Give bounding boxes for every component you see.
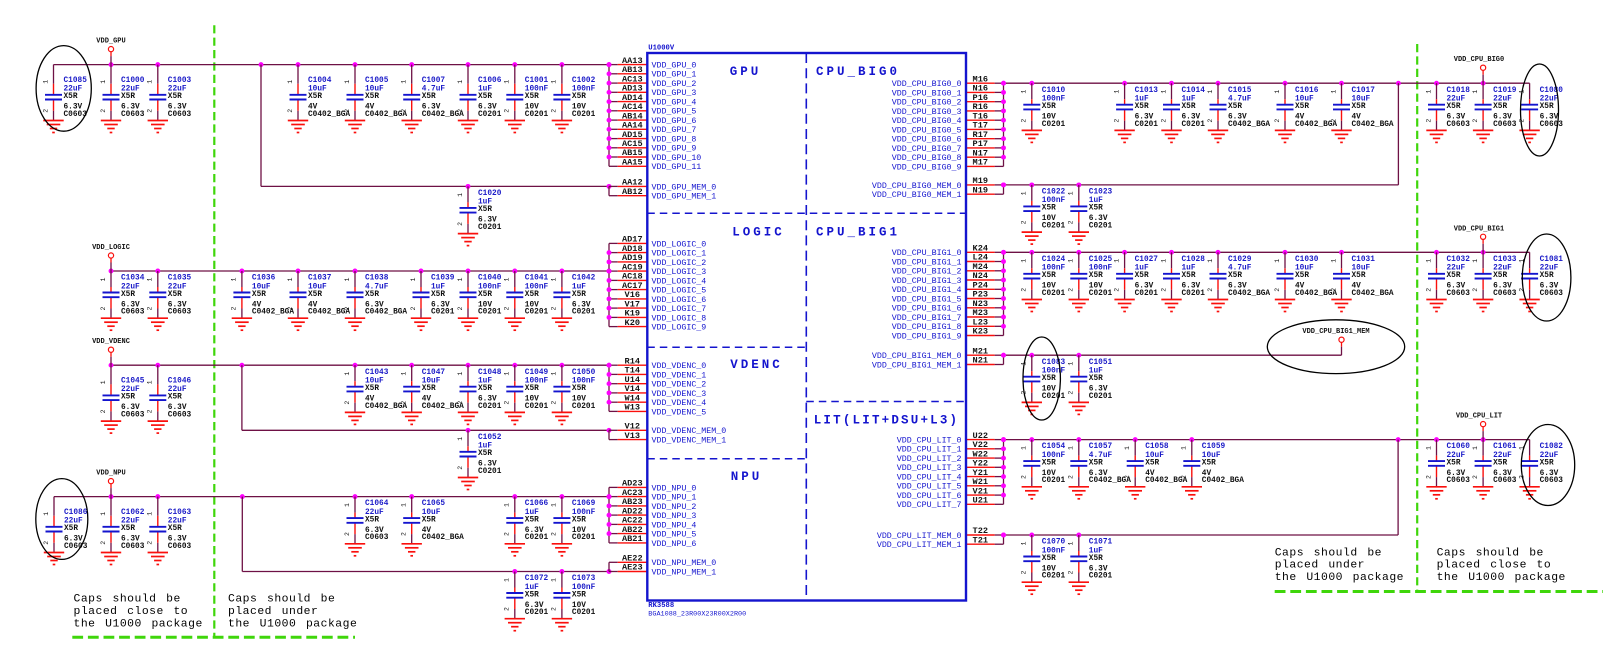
svg-text:2: 2: [344, 532, 351, 536]
svg-text:1: 1: [1274, 90, 1281, 94]
svg-text:1: 1: [1068, 191, 1075, 195]
svg-text:X5R: X5R: [1089, 555, 1103, 563]
svg-text:C1063: C1063: [168, 509, 192, 517]
svg-text:1: 1: [1160, 90, 1167, 94]
svg-text:C1064: C1064: [365, 500, 389, 508]
svg-text:1: 1: [147, 277, 154, 281]
svg-text:2: 2: [1207, 288, 1214, 292]
svg-text:1: 1: [401, 503, 408, 507]
svg-text:2: 2: [100, 306, 107, 310]
svg-text:1: 1: [1160, 259, 1167, 263]
svg-text:1: 1: [1068, 362, 1075, 366]
svg-text:C0201: C0201: [1042, 393, 1066, 401]
svg-text:X5R: X5R: [572, 516, 586, 524]
svg-text:VDD_GPU_7: VDD_GPU_7: [652, 126, 697, 135]
svg-text:C1025: C1025: [1089, 256, 1113, 264]
svg-text:C1013: C1013: [1135, 87, 1159, 95]
svg-text:X5R: X5R: [365, 93, 379, 101]
svg-text:VDD_VDENC_MEM_1: VDD_VDENC_MEM_1: [652, 437, 727, 446]
svg-text:C1006: C1006: [478, 77, 502, 85]
svg-text:C1071: C1071: [1089, 539, 1113, 547]
svg-text:2: 2: [287, 109, 294, 113]
svg-text:C0603: C0603: [168, 309, 192, 317]
svg-text:1: 1: [1330, 259, 1337, 263]
svg-text:1: 1: [1274, 259, 1281, 263]
svg-text:1: 1: [457, 372, 464, 376]
svg-text:C1001: C1001: [525, 77, 549, 85]
svg-text:GPU: GPU: [730, 65, 762, 79]
svg-text:C1031: C1031: [1352, 256, 1376, 264]
svg-text:1: 1: [287, 80, 294, 84]
svg-text:X5R: X5R: [1540, 103, 1554, 111]
svg-text:2: 2: [1068, 475, 1075, 479]
svg-text:C1007: C1007: [422, 77, 446, 85]
svg-text:C1057: C1057: [1089, 443, 1113, 451]
svg-text:C1073: C1073: [572, 575, 596, 583]
svg-text:VDD_GPU_4: VDD_GPU_4: [652, 99, 697, 108]
svg-text:C1038: C1038: [365, 275, 389, 283]
svg-text:VDD_NPU: VDD_NPU: [96, 470, 125, 478]
svg-text:VDD_CPU_BIG1_3: VDD_CPU_BIG1_3: [892, 277, 962, 286]
svg-text:1: 1: [100, 512, 107, 516]
svg-text:C0402_BGA: C0402_BGA: [1352, 121, 1394, 129]
svg-text:C0201: C0201: [1135, 121, 1159, 129]
svg-text:X5R: X5R: [1295, 272, 1309, 280]
svg-text:C1085: C1085: [64, 77, 88, 85]
svg-text:the U1000 package: the U1000 package: [1275, 572, 1404, 584]
svg-text:C0603: C0603: [64, 543, 88, 551]
svg-text:X5R: X5R: [1089, 205, 1103, 213]
svg-text:CPU_BIG0: CPU_BIG0: [816, 65, 900, 79]
svg-text:2: 2: [457, 466, 464, 470]
svg-text:1: 1: [287, 277, 294, 281]
svg-text:C0603: C0603: [1540, 290, 1564, 298]
svg-text:C1049: C1049: [525, 369, 549, 377]
svg-text:1: 1: [100, 277, 107, 281]
svg-text:LOGIC: LOGIC: [732, 225, 785, 239]
svg-text:CPU_BIG1: CPU_BIG1: [816, 225, 900, 239]
svg-text:VDD_CPU_BIG0_2: VDD_CPU_BIG0_2: [892, 99, 962, 108]
svg-text:C1059: C1059: [1202, 443, 1226, 451]
svg-text:2: 2: [1068, 391, 1075, 395]
svg-text:C1046: C1046: [168, 378, 192, 386]
svg-text:W13: W13: [625, 403, 640, 413]
svg-text:1: 1: [551, 277, 558, 281]
svg-text:C0603: C0603: [1493, 477, 1517, 485]
svg-text:C1018: C1018: [1447, 87, 1471, 95]
svg-text:1: 1: [457, 80, 464, 84]
svg-text:1: 1: [1207, 90, 1214, 94]
svg-text:VDD_CPU_BIG0_1: VDD_CPU_BIG0_1: [892, 89, 962, 98]
svg-text:VDD_CPU_LIT_3: VDD_CPU_LIT_3: [897, 464, 962, 473]
svg-text:VDD_CPU_LIT_5: VDD_CPU_LIT_5: [897, 483, 962, 492]
svg-text:X5R: X5R: [1182, 103, 1196, 111]
svg-text:VDD_NPU_MEM_1: VDD_NPU_MEM_1: [652, 568, 717, 577]
svg-text:VDD_CPU_BIG1_6: VDD_CPU_BIG1_6: [892, 305, 962, 314]
svg-text:1: 1: [401, 80, 408, 84]
svg-text:C1010: C1010: [1042, 87, 1066, 95]
svg-text:2: 2: [457, 222, 464, 226]
svg-text:1: 1: [147, 380, 154, 384]
svg-text:M17: M17: [973, 158, 988, 168]
svg-text:2: 2: [1181, 475, 1188, 479]
svg-text:K23: K23: [973, 327, 988, 337]
svg-text:2: 2: [1472, 288, 1479, 292]
svg-text:C0603: C0603: [1540, 121, 1564, 129]
svg-text:X5R: X5R: [1447, 272, 1461, 280]
svg-text:C1005: C1005: [365, 77, 389, 85]
svg-text:2: 2: [1021, 119, 1028, 123]
svg-text:C1072: C1072: [525, 575, 549, 583]
svg-text:VDD_CPU_BIG0_8: VDD_CPU_BIG0_8: [892, 154, 962, 163]
svg-text:VDD_LOGIC_0: VDD_LOGIC_0: [652, 240, 707, 249]
svg-text:C1082: C1082: [1540, 443, 1564, 451]
svg-text:1: 1: [147, 80, 154, 84]
svg-text:BGA1088_23R00X23R00X2R00: BGA1088_23R00X23R00X2R00: [648, 610, 746, 618]
svg-text:the U1000 package: the U1000 package: [228, 618, 357, 630]
svg-text:X5R: X5R: [1352, 272, 1366, 280]
svg-text:VDD_CPU_BIG0_6: VDD_CPU_BIG0_6: [892, 136, 962, 145]
svg-text:1: 1: [504, 80, 511, 84]
svg-text:VDD_CPU_LIT_0: VDD_CPU_LIT_0: [897, 437, 962, 446]
svg-text:2: 2: [504, 109, 511, 113]
svg-text:2: 2: [1518, 119, 1525, 123]
svg-text:2: 2: [344, 109, 351, 113]
svg-text:2: 2: [43, 541, 50, 545]
svg-text:C1054: C1054: [1042, 443, 1066, 451]
svg-text:1: 1: [1472, 90, 1479, 94]
svg-text:X5R: X5R: [1089, 272, 1103, 280]
svg-text:VDD_LOGIC_1: VDD_LOGIC_1: [652, 250, 707, 259]
svg-text:1: 1: [504, 503, 511, 507]
svg-text:C1048: C1048: [478, 369, 502, 377]
svg-text:X5R: X5R: [1089, 459, 1103, 467]
svg-text:RK3588: RK3588: [648, 602, 674, 610]
svg-text:1: 1: [1068, 446, 1075, 450]
svg-text:AB21: AB21: [622, 534, 643, 544]
svg-text:VDD_LOGIC_3: VDD_LOGIC_3: [652, 268, 707, 277]
svg-text:1: 1: [147, 512, 154, 516]
svg-text:VDD_VDENC_3: VDD_VDENC_3: [652, 390, 707, 399]
svg-text:VDD_GPU_8: VDD_GPU_8: [652, 136, 697, 145]
svg-text:2: 2: [1113, 288, 1120, 292]
svg-text:VDD_GPU_11: VDD_GPU_11: [652, 163, 702, 172]
svg-text:2: 2: [1425, 475, 1432, 479]
svg-text:C0603: C0603: [121, 111, 145, 119]
svg-text:2: 2: [1021, 288, 1028, 292]
svg-text:2: 2: [1113, 119, 1120, 123]
svg-text:2: 2: [147, 409, 154, 413]
svg-text:X5R: X5R: [1089, 375, 1103, 383]
svg-text:C0201: C0201: [1089, 290, 1113, 298]
svg-text:C1022: C1022: [1042, 189, 1066, 197]
svg-text:X5R: X5R: [1202, 459, 1216, 467]
svg-text:LIT(LIT+DSU+L3): LIT(LIT+DSU+L3): [814, 414, 960, 428]
svg-text:C0201: C0201: [525, 111, 549, 119]
svg-text:2: 2: [401, 532, 408, 536]
svg-text:X5R: X5R: [525, 516, 539, 524]
svg-text:2: 2: [551, 401, 558, 405]
svg-text:1: 1: [100, 80, 107, 84]
svg-text:2: 2: [1330, 119, 1337, 123]
svg-text:C1069: C1069: [572, 500, 596, 508]
svg-text:VDD_CPU_BIG0_MEM_1: VDD_CPU_BIG0_MEM_1: [872, 191, 962, 200]
svg-text:AB12: AB12: [622, 187, 643, 197]
svg-text:X5R: X5R: [422, 385, 436, 393]
svg-text:C0603: C0603: [365, 534, 389, 542]
svg-text:VDD_CPU_BIG0: VDD_CPU_BIG0: [1454, 56, 1504, 64]
svg-text:1: 1: [1113, 90, 1120, 94]
svg-text:C0201: C0201: [525, 534, 549, 542]
svg-text:2: 2: [100, 409, 107, 413]
svg-text:C0201: C0201: [1042, 121, 1066, 129]
svg-text:C0201: C0201: [478, 111, 502, 119]
svg-text:VDD_LOGIC_9: VDD_LOGIC_9: [652, 324, 707, 333]
svg-text:VDD_CPU_BIG0_3: VDD_CPU_BIG0_3: [892, 108, 962, 117]
svg-text:X5R: X5R: [308, 93, 322, 101]
svg-text:2: 2: [504, 532, 511, 536]
svg-text:C1024: C1024: [1042, 256, 1066, 264]
svg-text:2: 2: [231, 306, 238, 310]
svg-text:VDD_LOGIC_5: VDD_LOGIC_5: [652, 287, 707, 296]
svg-text:X5R: X5R: [1182, 272, 1196, 280]
svg-text:X5R: X5R: [1295, 103, 1309, 111]
svg-text:VDD_CPU_BIG1_1: VDD_CPU_BIG1_1: [892, 258, 962, 267]
svg-text:C1028: C1028: [1182, 256, 1206, 264]
svg-text:2: 2: [1124, 475, 1131, 479]
svg-text:2: 2: [457, 401, 464, 405]
svg-text:C0201: C0201: [525, 403, 549, 411]
svg-text:C1050: C1050: [572, 369, 596, 377]
svg-text:C0603: C0603: [121, 412, 145, 420]
svg-text:C0201: C0201: [478, 224, 502, 232]
svg-text:1: 1: [504, 578, 511, 582]
svg-text:X5R: X5R: [1493, 272, 1507, 280]
svg-text:X5R: X5R: [168, 394, 182, 402]
svg-text:2: 2: [287, 306, 294, 310]
svg-text:C0201: C0201: [1042, 477, 1066, 485]
svg-text:2: 2: [457, 306, 464, 310]
svg-text:X5R: X5R: [572, 591, 586, 599]
svg-text:VDD_LOGIC_7: VDD_LOGIC_7: [652, 305, 707, 314]
svg-text:C0201: C0201: [478, 468, 502, 476]
svg-text:C1029: C1029: [1228, 256, 1252, 264]
svg-text:1: 1: [1021, 541, 1028, 545]
svg-text:2: 2: [401, 401, 408, 405]
svg-text:C1037: C1037: [308, 275, 332, 283]
svg-text:T21: T21: [973, 535, 988, 545]
svg-text:C1003: C1003: [168, 77, 192, 85]
svg-text:1: 1: [1021, 259, 1028, 263]
svg-text:C0201: C0201: [572, 534, 596, 542]
svg-text:C0603: C0603: [121, 543, 145, 551]
svg-text:V13: V13: [625, 431, 640, 441]
svg-text:2: 2: [1160, 288, 1167, 292]
svg-text:VDD_CPU_BIG1_9: VDD_CPU_BIG1_9: [892, 332, 962, 341]
svg-text:X5R: X5R: [121, 525, 135, 533]
svg-text:X5R: X5R: [431, 291, 445, 299]
svg-text:X5R: X5R: [1135, 103, 1149, 111]
svg-text:VDD_VDENC_MEM_0: VDD_VDENC_MEM_0: [652, 427, 727, 436]
svg-text:C0603: C0603: [168, 412, 192, 420]
svg-text:X5R: X5R: [1352, 103, 1366, 111]
svg-text:1: 1: [1472, 446, 1479, 450]
svg-text:1: 1: [457, 437, 464, 441]
svg-text:C1065: C1065: [422, 500, 446, 508]
svg-text:2: 2: [551, 607, 558, 611]
svg-text:2: 2: [1068, 288, 1075, 292]
svg-text:2: 2: [1425, 288, 1432, 292]
svg-text:C0603: C0603: [1447, 290, 1471, 298]
svg-text:C0201: C0201: [572, 403, 596, 411]
svg-text:C0201: C0201: [1089, 573, 1113, 581]
svg-text:X5R: X5R: [478, 385, 492, 393]
svg-text:2: 2: [100, 541, 107, 545]
svg-text:VDD_CPU_BIG0_5: VDD_CPU_BIG0_5: [892, 126, 962, 135]
svg-text:X5R: X5R: [121, 394, 135, 402]
svg-text:1: 1: [42, 80, 49, 84]
svg-text:2: 2: [147, 109, 154, 113]
svg-text:C1041: C1041: [525, 275, 549, 283]
svg-text:X5R: X5R: [422, 516, 436, 524]
svg-text:X5R: X5R: [525, 93, 539, 101]
svg-text:C0402_BGA: C0402_BGA: [1352, 290, 1394, 298]
svg-text:VDD_LOGIC_6: VDD_LOGIC_6: [652, 296, 707, 305]
svg-text:1: 1: [344, 372, 351, 376]
svg-text:X5R: X5R: [64, 525, 78, 533]
svg-text:1: 1: [43, 512, 50, 516]
svg-text:X5R: X5R: [365, 291, 379, 299]
svg-text:C1066: C1066: [525, 500, 549, 508]
svg-text:VDD_CPU_BIG0_0: VDD_CPU_BIG0_0: [892, 80, 962, 89]
svg-text:2: 2: [1068, 570, 1075, 574]
svg-text:VDD_GPU_5: VDD_GPU_5: [652, 108, 697, 117]
svg-text:1: 1: [231, 277, 238, 281]
svg-text:X5R: X5R: [365, 385, 379, 393]
svg-text:C1047: C1047: [422, 369, 446, 377]
svg-text:VDD_NPU_5: VDD_NPU_5: [652, 531, 697, 540]
svg-text:VDD_CPU_BIG1_2: VDD_CPU_BIG1_2: [892, 268, 962, 277]
svg-text:X5R: X5R: [1135, 272, 1149, 280]
svg-text:2: 2: [504, 306, 511, 310]
svg-text:X5R: X5R: [308, 291, 322, 299]
svg-text:C0201: C0201: [1089, 393, 1113, 401]
svg-text:C1061: C1061: [1493, 443, 1517, 451]
svg-text:C1034: C1034: [121, 275, 145, 283]
svg-text:2: 2: [504, 607, 511, 611]
svg-text:X5R: X5R: [168, 525, 182, 533]
svg-text:placed close to: placed close to: [1437, 560, 1552, 572]
svg-text:C0201: C0201: [1182, 290, 1206, 298]
svg-text:VDD_CPU_LIT_MEM_0: VDD_CPU_LIT_MEM_0: [877, 532, 962, 541]
svg-text:NPU: NPU: [731, 470, 763, 484]
svg-text:VDD_CPU_BIG1_8: VDD_CPU_BIG1_8: [892, 323, 962, 332]
svg-text:Caps should be: Caps should be: [1275, 547, 1382, 559]
svg-text:C0201: C0201: [1042, 290, 1066, 298]
svg-text:C0201: C0201: [572, 609, 596, 617]
svg-text:X5R: X5R: [1447, 459, 1461, 467]
svg-text:1: 1: [1021, 446, 1028, 450]
svg-text:2: 2: [1021, 220, 1028, 224]
svg-text:2: 2: [1274, 119, 1281, 123]
svg-text:1: 1: [1330, 90, 1337, 94]
svg-text:X5R: X5R: [168, 93, 182, 101]
svg-text:1: 1: [1181, 446, 1188, 450]
svg-text:VDD_GPU_MEM_0: VDD_GPU_MEM_0: [652, 183, 717, 192]
svg-text:AA15: AA15: [622, 158, 643, 168]
svg-text:C1000: C1000: [121, 77, 145, 85]
svg-text:2: 2: [1021, 475, 1028, 479]
svg-text:VDD_NPU_3: VDD_NPU_3: [652, 512, 697, 521]
svg-text:1: 1: [100, 380, 107, 384]
svg-text:C0201: C0201: [572, 111, 596, 119]
svg-text:1: 1: [551, 80, 558, 84]
svg-text:VDD_GPU_1: VDD_GPU_1: [652, 71, 697, 80]
svg-text:2: 2: [1160, 119, 1167, 123]
svg-text:1: 1: [504, 277, 511, 281]
svg-text:2: 2: [147, 306, 154, 310]
svg-text:VDD_GPU_9: VDD_GPU_9: [652, 145, 697, 154]
svg-text:C0201: C0201: [525, 609, 549, 617]
svg-text:X5R: X5R: [1493, 459, 1507, 467]
svg-text:X5R: X5R: [1540, 272, 1554, 280]
svg-text:VDD_GPU_0: VDD_GPU_0: [652, 62, 697, 71]
svg-text:VDD_CPU_BIG1_MEM_1: VDD_CPU_BIG1_MEM_1: [872, 361, 962, 370]
svg-text:2: 2: [344, 306, 351, 310]
svg-text:1: 1: [1425, 90, 1432, 94]
svg-text:C0201: C0201: [1042, 223, 1066, 231]
svg-text:2: 2: [401, 109, 408, 113]
svg-text:C0402_BGA: C0402_BGA: [422, 534, 464, 542]
svg-text:1: 1: [1207, 259, 1214, 263]
svg-text:2: 2: [410, 306, 417, 310]
svg-text:VDD_GPU_MEM_1: VDD_GPU_MEM_1: [652, 193, 717, 202]
svg-text:VDD_VDENC_4: VDD_VDENC_4: [652, 399, 707, 408]
svg-text:X5R: X5R: [572, 93, 586, 101]
svg-text:C1080: C1080: [1540, 87, 1564, 95]
svg-text:C1051: C1051: [1089, 359, 1113, 367]
svg-text:X5R: X5R: [168, 291, 182, 299]
svg-text:C1058: C1058: [1145, 443, 1169, 451]
svg-text:2: 2: [504, 401, 511, 405]
svg-text:VDD_LOGIC: VDD_LOGIC: [92, 244, 130, 252]
svg-text:1: 1: [504, 372, 511, 376]
svg-text:VDD_CPU_BIG0_MEM_0: VDD_CPU_BIG0_MEM_0: [872, 182, 962, 191]
svg-text:X5R: X5R: [572, 291, 586, 299]
svg-text:1: 1: [457, 193, 464, 197]
svg-text:C0603: C0603: [1447, 477, 1471, 485]
svg-text:X5R: X5R: [1042, 205, 1056, 213]
svg-text:the U1000 package: the U1000 package: [1437, 572, 1566, 584]
svg-text:VDD_LOGIC_2: VDD_LOGIC_2: [652, 259, 707, 268]
svg-text:VDD_GPU_10: VDD_GPU_10: [652, 154, 702, 163]
svg-text:C1002: C1002: [572, 77, 596, 85]
svg-text:1: 1: [457, 277, 464, 281]
svg-text:U1000V: U1000V: [648, 45, 675, 53]
svg-text:1: 1: [344, 80, 351, 84]
svg-text:VDD_LOGIC_4: VDD_LOGIC_4: [652, 277, 707, 286]
svg-text:X5R: X5R: [525, 385, 539, 393]
svg-text:2: 2: [457, 109, 464, 113]
svg-text:VDENC: VDENC: [730, 358, 783, 372]
svg-text:C1027: C1027: [1135, 256, 1159, 264]
svg-text:X5R: X5R: [1447, 103, 1461, 111]
svg-text:VDD_NPU_MEM_0: VDD_NPU_MEM_0: [652, 559, 717, 568]
svg-text:C1020: C1020: [478, 190, 502, 198]
svg-text:X5R: X5R: [1042, 272, 1056, 280]
svg-text:X5R: X5R: [1042, 375, 1056, 383]
svg-text:2: 2: [1207, 119, 1214, 123]
